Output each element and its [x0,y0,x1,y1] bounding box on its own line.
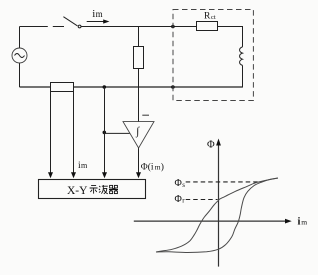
svg-text:m: m [96,9,103,19]
svg-text:i: i [298,216,301,227]
svg-text:m: m [301,217,307,226]
svg-text:Φ: Φ [175,194,182,205]
svg-text:X-Y: X-Y [67,185,88,197]
svg-text:∫: ∫ [135,126,140,138]
svg-text:Φ(i: Φ(i [141,161,154,172]
svg-text:Φ: Φ [207,139,215,150]
svg-text:s: s [182,181,185,189]
svg-text:): ) [161,161,164,172]
svg-text:m: m [81,161,88,170]
svg-text:Φ: Φ [175,178,182,189]
svg-text:ct: ct [211,14,216,21]
svg-text:r: r [182,197,185,205]
svg-text:R: R [204,11,211,21]
